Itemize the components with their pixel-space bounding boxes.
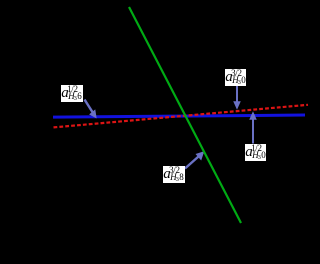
label box a^{3/2}_{H3 8} <box>163 166 185 183</box>
label box a^{1/2}_{H3 0} <box>245 144 266 161</box>
green steep line <box>129 7 241 223</box>
arrow from label a32H30 down to red line <box>234 85 240 109</box>
arrow from label a32H38 up-right to green line <box>185 152 204 169</box>
blue nearly-horizontal line <box>53 115 305 117</box>
arrow from label a12H30 up to blue line <box>250 113 256 144</box>
arrow from label a12H36 to blue line <box>85 100 97 118</box>
label box a^{3/2}_{H3 0} <box>225 69 246 86</box>
label box a^{1/2}_{H3 6} <box>61 85 83 102</box>
red dashed line <box>54 105 309 128</box>
